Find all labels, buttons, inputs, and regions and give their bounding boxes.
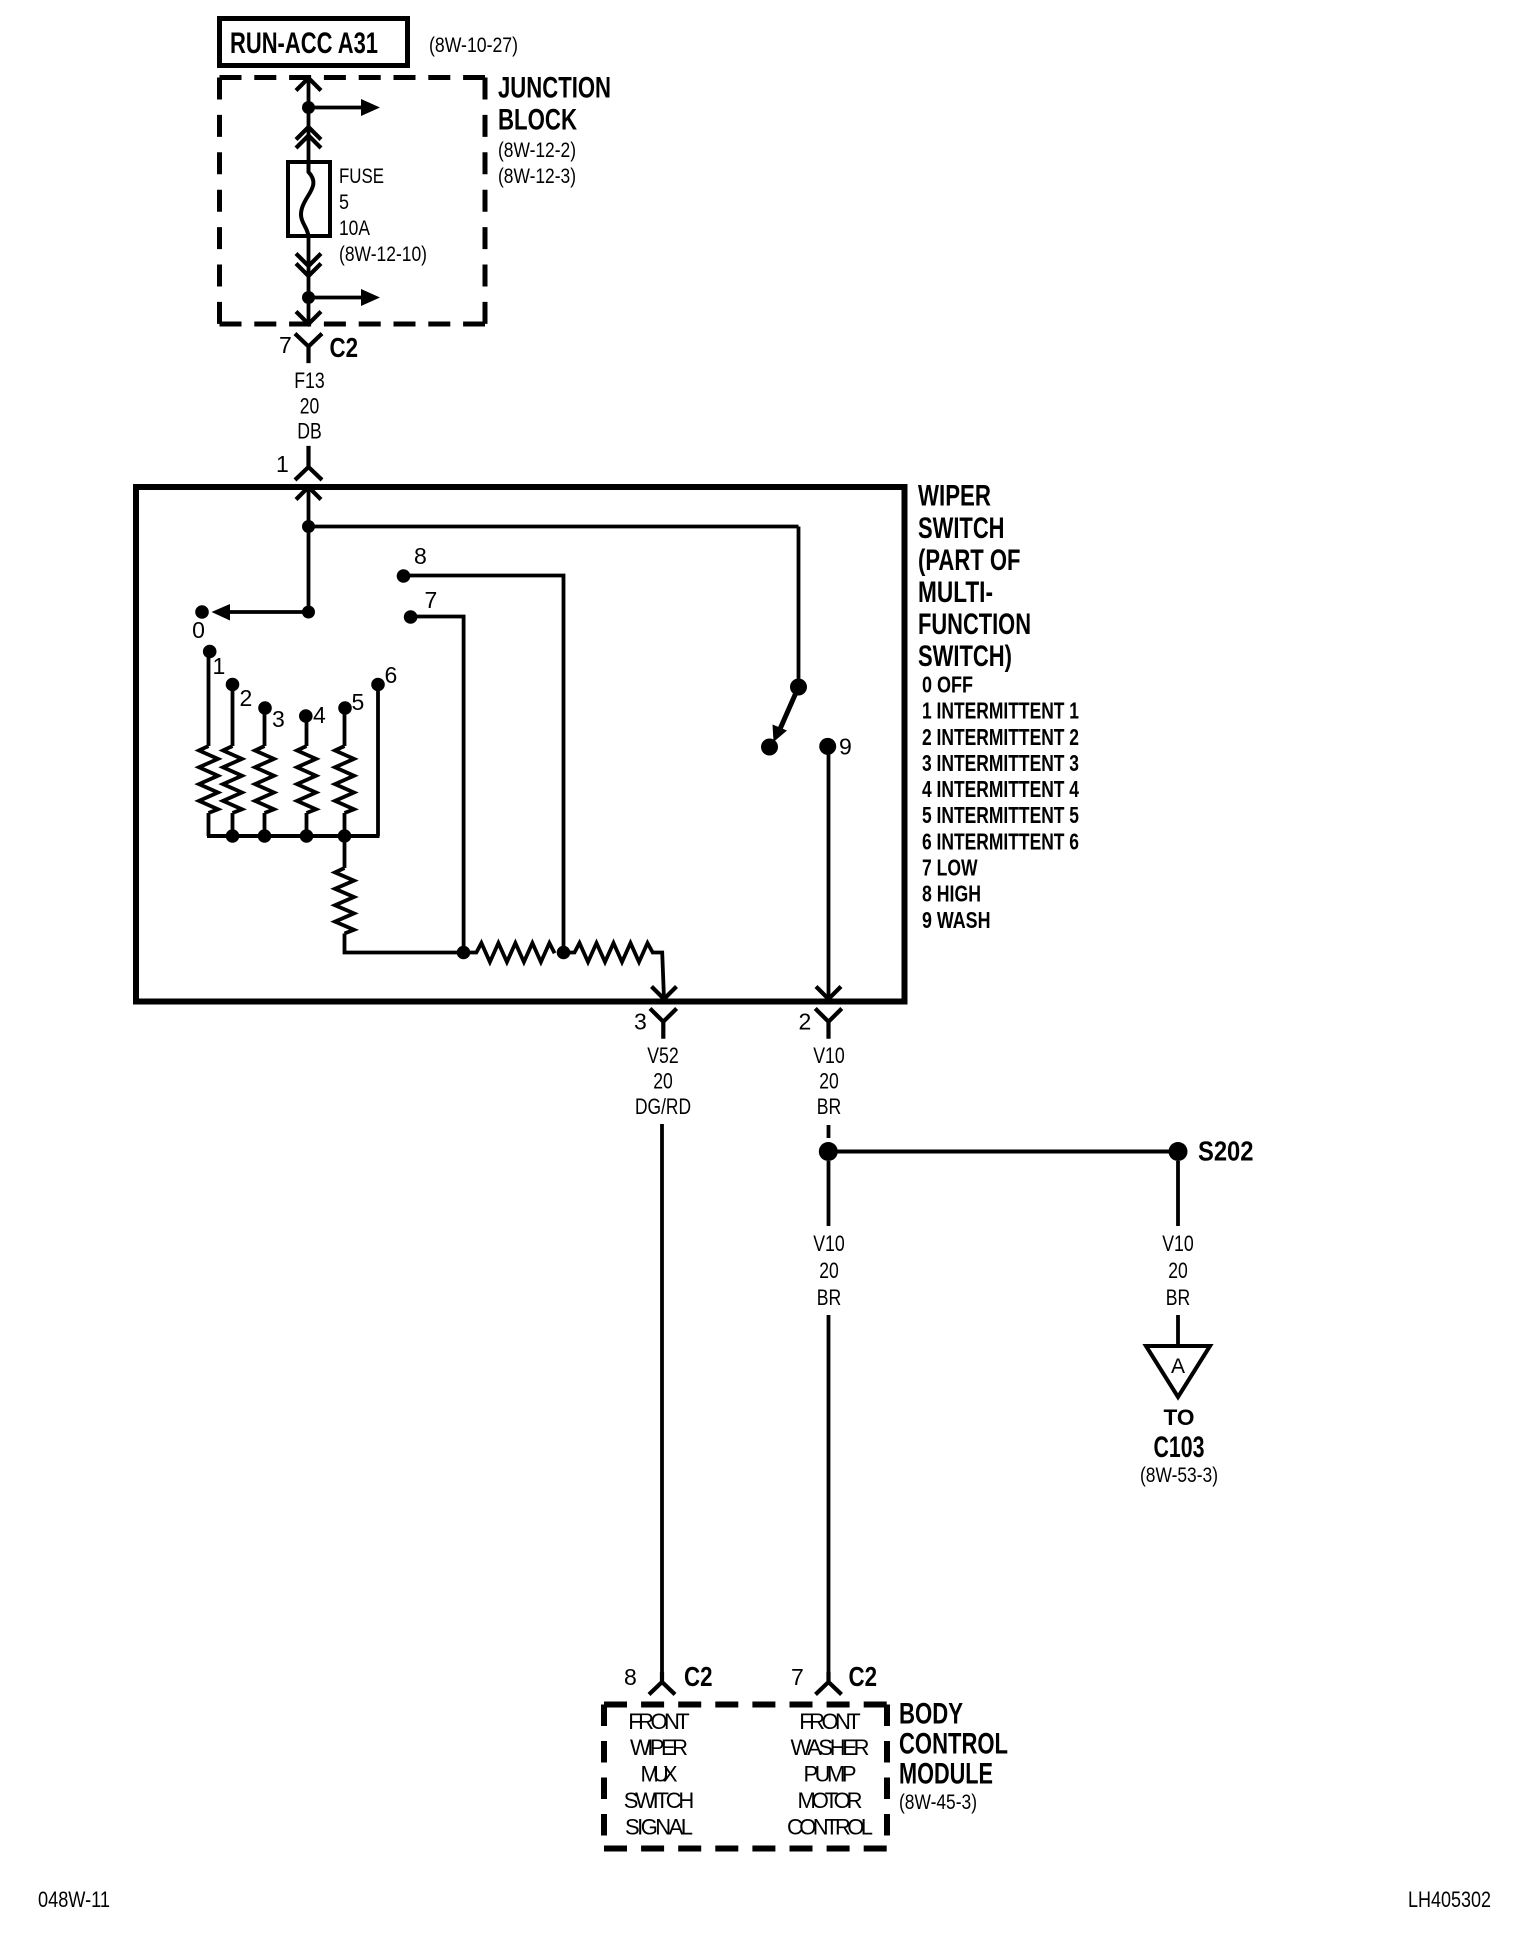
svg-text:(8W-12-10): (8W-12-10) — [339, 243, 427, 266]
svg-text:(8W-10-27): (8W-10-27) — [429, 34, 518, 57]
svg-text:LH405302: LH405302 — [1408, 1887, 1491, 1912]
svg-text:WASHER: WASHER — [791, 1735, 870, 1760]
svg-text:FUSE: FUSE — [339, 165, 384, 188]
svg-text:5: 5 — [339, 191, 349, 214]
svg-text:4 INTERMITTENT 4: 4 INTERMITTENT 4 — [922, 776, 1079, 802]
svg-text:7 LOW: 7 LOW — [922, 855, 978, 881]
svg-text:3: 3 — [272, 706, 285, 732]
svg-text:1: 1 — [276, 451, 289, 477]
svg-text:MODULE: MODULE — [899, 1758, 993, 1791]
svg-text:CONTROL: CONTROL — [787, 1814, 873, 1839]
svg-text:9: 9 — [839, 734, 852, 760]
svg-text:V10: V10 — [813, 1043, 845, 1068]
svg-text:F13: F13 — [294, 368, 325, 393]
svg-text:PUMP: PUMP — [804, 1762, 857, 1787]
svg-text:7: 7 — [425, 587, 438, 613]
svg-text:BODY: BODY — [899, 1698, 963, 1731]
svg-text:20: 20 — [819, 1258, 839, 1283]
svg-text:DG/RD: DG/RD — [635, 1094, 691, 1119]
svg-text:6: 6 — [385, 662, 398, 688]
svg-text:MOTOR: MOTOR — [798, 1788, 863, 1813]
svg-text:1 INTERMITTENT 1: 1 INTERMITTENT 1 — [922, 698, 1079, 724]
svg-text:MULTI-: MULTI- — [918, 576, 993, 609]
svg-text:8: 8 — [624, 1664, 637, 1690]
svg-text:V10: V10 — [1162, 1231, 1194, 1256]
svg-text:V52: V52 — [647, 1043, 679, 1068]
svg-text:SWITCH: SWITCH — [918, 512, 1005, 545]
svg-text:BLOCK: BLOCK — [498, 104, 577, 137]
svg-text:(8W-12-2): (8W-12-2) — [498, 139, 576, 162]
svg-text:5 INTERMITTENT 5: 5 INTERMITTENT 5 — [922, 802, 1079, 828]
svg-text:SWITCH: SWITCH — [624, 1788, 695, 1813]
svg-text:A: A — [1171, 1355, 1185, 1378]
svg-text:1: 1 — [213, 653, 226, 679]
svg-text:DB: DB — [297, 419, 322, 444]
svg-text:SIGNAL: SIGNAL — [625, 1814, 693, 1839]
svg-text:FUNCTION: FUNCTION — [918, 608, 1031, 641]
svg-text:3 INTERMITTENT 3: 3 INTERMITTENT 3 — [922, 750, 1079, 776]
svg-text:6 INTERMITTENT 6: 6 INTERMITTENT 6 — [922, 828, 1079, 854]
svg-text:BR: BR — [1166, 1285, 1191, 1310]
svg-text:2: 2 — [240, 685, 253, 711]
svg-text:FRONT: FRONT — [628, 1709, 690, 1734]
svg-text:8: 8 — [414, 543, 427, 569]
svg-text:20: 20 — [1168, 1258, 1188, 1283]
svg-text:WIPER: WIPER — [630, 1735, 688, 1760]
svg-text:C2: C2 — [330, 332, 359, 363]
svg-text:(8W-12-3): (8W-12-3) — [498, 165, 576, 188]
svg-text:C2: C2 — [684, 1661, 713, 1692]
svg-text:4: 4 — [313, 702, 326, 728]
svg-text:0: 0 — [192, 617, 205, 643]
svg-text:C2: C2 — [849, 1661, 878, 1692]
svg-text:20: 20 — [819, 1069, 839, 1094]
svg-text:BR: BR — [817, 1094, 842, 1119]
svg-text:CONTROL: CONTROL — [899, 1728, 1008, 1761]
svg-text:SWITCH): SWITCH) — [918, 640, 1012, 673]
svg-text:048W-11: 048W-11 — [38, 1887, 110, 1912]
svg-text:3: 3 — [634, 1009, 647, 1035]
svg-text:V10: V10 — [813, 1231, 845, 1256]
svg-text:(8W-45-3): (8W-45-3) — [899, 1791, 977, 1814]
svg-text:5: 5 — [352, 689, 365, 715]
svg-text:10A: 10A — [339, 217, 370, 240]
svg-text:0 OFF: 0 OFF — [922, 672, 973, 698]
svg-text:WIPER: WIPER — [918, 480, 991, 513]
svg-text:C103: C103 — [1154, 1431, 1205, 1464]
svg-text:TO: TO — [1164, 1405, 1195, 1430]
svg-text:RUN-ACC A31: RUN-ACC A31 — [230, 27, 378, 60]
svg-text:7: 7 — [279, 332, 292, 358]
svg-text:BR: BR — [817, 1285, 842, 1310]
svg-text:FRONT: FRONT — [799, 1709, 861, 1734]
svg-text:MUX: MUX — [641, 1762, 678, 1787]
svg-text:8 HIGH: 8 HIGH — [922, 881, 981, 907]
svg-text:20: 20 — [653, 1069, 673, 1094]
svg-text:(8W-53-3): (8W-53-3) — [1140, 1464, 1218, 1487]
svg-text:(PART OF: (PART OF — [918, 544, 1021, 577]
svg-text:2 INTERMITTENT 2: 2 INTERMITTENT 2 — [922, 724, 1079, 750]
svg-text:2: 2 — [799, 1009, 812, 1035]
svg-text:S202: S202 — [1198, 1136, 1254, 1167]
svg-text:20: 20 — [300, 394, 320, 419]
svg-text:9 WASH: 9 WASH — [922, 907, 991, 933]
svg-text:7: 7 — [791, 1664, 804, 1690]
svg-text:JUNCTION: JUNCTION — [498, 72, 611, 105]
